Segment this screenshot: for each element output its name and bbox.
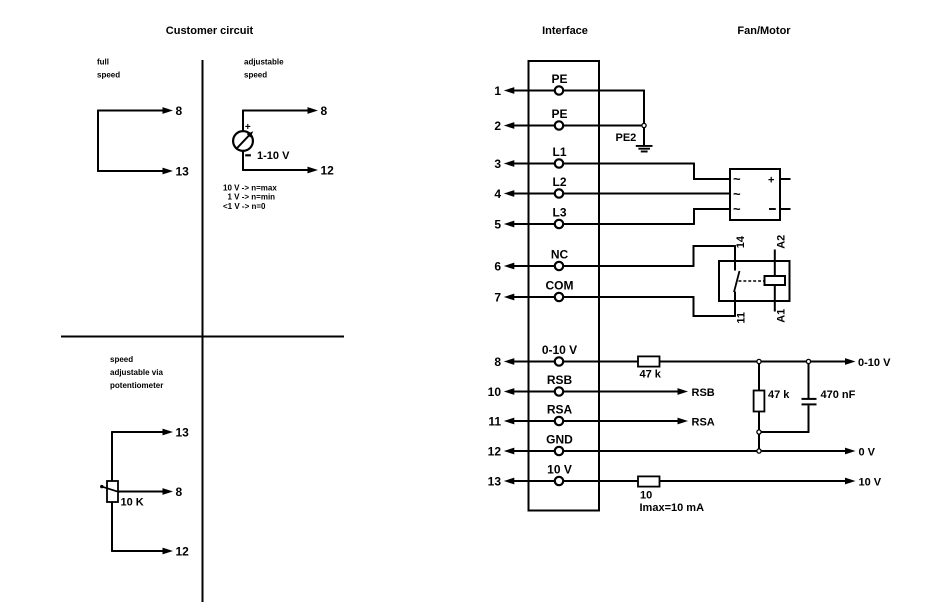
title Interface (542, 25, 588, 37)
wire cap top lead (808, 364, 810, 398)
svg-text:10 V: 10 V (547, 463, 572, 477)
title Customer circuit (166, 25, 254, 37)
potentiometer R 10 K (107, 481, 118, 502)
wire pin2 PE right (564, 125, 642, 127)
pin label L1 (pin 3) (552, 145, 566, 159)
pin label L2 (pin 4) (552, 175, 566, 189)
svg-text:2: 2 (494, 119, 501, 133)
node junction (0V line) (757, 449, 761, 453)
svg-text:7: 7 (494, 291, 501, 305)
pin number 3 (494, 157, 501, 171)
node 12 (adjustable) (321, 164, 335, 178)
svg-text:11: 11 (735, 312, 747, 324)
svg-text:A1: A1 (775, 309, 787, 323)
value 47 k (series) (640, 369, 662, 381)
relay terminal 14 lead (734, 245, 736, 270)
svg-text:0-10 V: 0-10 V (858, 357, 891, 369)
svg-text:8: 8 (321, 104, 328, 118)
wire pot top to 13 (112, 429, 173, 436)
motor pin ~ 3 (733, 202, 741, 217)
wire L2 pin4 to motor (564, 193, 730, 195)
pin number 5 (494, 218, 501, 232)
pin label RSB (pin 10) (547, 373, 573, 387)
wire pin13 to resistor (564, 480, 638, 482)
wire pin 2 to left arrow (504, 122, 555, 129)
svg-text:10 V: 10 V (859, 476, 882, 488)
svg-text:NC: NC (551, 248, 569, 262)
terminal circle pin 12 (GND) (555, 447, 563, 455)
svg-text:13: 13 (176, 165, 190, 179)
wire pin12 to 0V arrow (564, 448, 856, 455)
wire cap bottom to junction (761, 405, 809, 433)
resistor 10 (series) (638, 476, 660, 486)
wire resistor to 0-10V arrow (660, 358, 856, 365)
wire pin 13 to left arrow (504, 478, 555, 485)
wire pot top vertical (111, 431, 113, 481)
motor box (rectifier/fan) (730, 169, 780, 220)
pin label GND (pin 12) (546, 433, 573, 447)
svg-text:12: 12 (176, 545, 190, 559)
relay box K1 (719, 261, 790, 301)
svg-text:14: 14 (735, 235, 747, 248)
wire resistor to 10V arrow (660, 478, 856, 485)
ground symbol (636, 146, 653, 152)
svg-text:47 k: 47 k (768, 389, 790, 401)
net label RSA (692, 416, 715, 428)
svg-text:8: 8 (176, 485, 183, 499)
motor - stub (780, 208, 791, 210)
svg-text:10: 10 (488, 385, 502, 399)
svg-text:12: 12 (321, 164, 335, 178)
wire pot bottom vertical (111, 502, 113, 552)
pin label COM (pin 7) (546, 279, 574, 293)
terminal circle pin 1 (PE) (555, 86, 563, 94)
svg-text:13: 13 (176, 426, 190, 440)
svg-text:470 nF: 470 nF (821, 389, 856, 401)
node 12 (pot) (176, 545, 190, 559)
wire junction to 47k (758, 364, 760, 391)
relay coil A2 lead (774, 250, 776, 277)
wire pin8 to resistor (564, 361, 638, 363)
pin number 7 (494, 291, 501, 305)
wire pin 12 to left arrow (504, 448, 555, 455)
pin number 1 (494, 84, 501, 98)
pin number 6 (494, 260, 501, 274)
svg-text:Fan/Motor: Fan/Motor (737, 25, 791, 37)
relay terminal 11 lead (734, 292, 736, 317)
node 8 (full speed) (176, 104, 183, 118)
motor pin ~ 2 (733, 187, 741, 202)
note Imax=10 mA (640, 502, 705, 514)
label 11 (rotated) (735, 312, 747, 324)
note voltage mapping (223, 183, 277, 211)
svg-text:11: 11 (488, 415, 501, 429)
svg-text:RSA: RSA (692, 416, 715, 428)
terminal circle pin 8 (0-10 V) (555, 357, 563, 365)
resistor 47 k (parallel) (754, 391, 765, 412)
pin number 8 (494, 355, 501, 369)
svg-text:Imax=10 mA: Imax=10 mA (640, 502, 705, 514)
svg-text:~: ~ (733, 187, 741, 202)
node junction (capacitor) (806, 359, 810, 363)
value 10 K (121, 497, 144, 509)
svg-text:speed: speed (97, 71, 120, 80)
interface box (529, 61, 600, 511)
node 8 (pot) (176, 485, 183, 499)
svg-text:10 V -> n=max: 10 V -> n=max (223, 183, 277, 192)
label A1 (rotated) (775, 309, 787, 323)
svg-text:10: 10 (640, 489, 652, 501)
net label 10 V (859, 476, 882, 488)
svg-text:5: 5 (494, 218, 501, 232)
label 14 (rotated) (735, 235, 747, 248)
value 47 k (parallel) (768, 389, 790, 401)
wire source top (242, 110, 244, 132)
resistor 47 k (series) (638, 356, 660, 366)
svg-text:Customer circuit: Customer circuit (166, 25, 254, 37)
wire source+ to 8 (243, 107, 318, 114)
svg-text:0 V: 0 V (859, 446, 876, 458)
node junction (RC bottom) (757, 430, 761, 434)
svg-text:47 k: 47 k (640, 369, 662, 381)
svg-text:potentiometer: potentiometer (110, 381, 163, 390)
svg-text:adjustable: adjustable (244, 58, 284, 67)
terminal circle pin 4 (L2) (555, 189, 563, 197)
wire pin1 PE right (564, 90, 644, 124)
voltage source V1 1-10 V (233, 131, 253, 151)
wire full-speed to 8 (98, 107, 173, 114)
pin number 2 (494, 119, 501, 133)
node 8 (adjustable) (321, 104, 328, 118)
relay actuator dashed link (739, 280, 765, 282)
capacitor 470 nF (802, 399, 817, 405)
terminal circle pin 10 (RSB) (555, 387, 563, 395)
svg-text:~: ~ (733, 202, 741, 217)
pin label L3 (pin 5) (552, 206, 566, 220)
svg-text:PE2: PE2 (616, 132, 637, 144)
terminal circle pin 5 (L3) (555, 220, 563, 228)
relay coil (765, 276, 786, 285)
pin number 12 (488, 445, 502, 459)
svg-text:8: 8 (176, 104, 183, 118)
wire pot wiper to 8 (118, 488, 173, 495)
pin label PE (pin 1) (551, 72, 567, 86)
wire pin 6 to left arrow (504, 263, 555, 270)
terminal circle pin 13 (10 V) (555, 477, 563, 485)
pin label 0-10 V (pin 8) (542, 343, 577, 357)
divider vertical (202, 60, 204, 602)
wire pin 4 to left arrow (504, 190, 555, 197)
svg-text:RSB: RSB (692, 387, 715, 399)
terminal circle pin 3 (L1) (555, 159, 563, 167)
relay coil A1 lead (774, 285, 776, 312)
wire pin 11 to left arrow (504, 418, 555, 425)
svg-text:13: 13 (488, 475, 502, 489)
pin label RSA (pin 11) (547, 403, 573, 417)
svg-text:+: + (768, 174, 774, 186)
wire pot bottom to 12 (112, 548, 173, 555)
wire PE2 to ground (643, 128, 645, 145)
wire pin11 to RSA arrow (564, 418, 688, 425)
svg-text:RSA: RSA (547, 403, 573, 417)
svg-text:L2: L2 (552, 175, 566, 189)
label adjustable speed (244, 58, 284, 80)
wire pin 8 to left arrow (504, 358, 555, 365)
label speed adjustable via potentiometer (110, 355, 163, 390)
svg-text:RSB: RSB (547, 373, 573, 387)
terminal circle pin 7 (COM) (555, 293, 563, 301)
svg-text:L3: L3 (552, 206, 566, 220)
wire source bottom (242, 151, 244, 171)
svg-text:PE: PE (551, 72, 567, 86)
svg-text:PE: PE (551, 107, 567, 121)
motor pin ~ 1 (733, 172, 741, 187)
pin label PE (pin 2) (551, 107, 567, 121)
svg-text:speed: speed (244, 71, 267, 80)
svg-text:speed: speed (110, 355, 133, 364)
wire pin 5 to left arrow (504, 221, 555, 228)
svg-text:Interface: Interface (542, 25, 588, 37)
potentiometer wiper (100, 485, 119, 492)
svg-text:+: + (245, 122, 251, 133)
pin label 10 V (pin 13) (547, 463, 572, 477)
terminal circle pin 6 (NC) (555, 262, 563, 270)
pin number 10 (488, 385, 502, 399)
net label 0-10 V (858, 357, 891, 369)
svg-text:4: 4 (494, 187, 501, 201)
svg-text:COM: COM (546, 279, 574, 293)
svg-text:adjustable via: adjustable via (110, 368, 163, 377)
value 10 (640, 489, 652, 501)
pin number 4 (494, 187, 501, 201)
wire 47k down to 0V (758, 412, 760, 452)
node PE2 junction (642, 123, 646, 127)
terminal circle pin 2 (PE) (555, 121, 563, 129)
svg-text:12: 12 (488, 445, 502, 459)
wire L3 pin5 to motor (564, 208, 730, 225)
label full speed (97, 58, 120, 80)
net label 0 V (859, 446, 876, 458)
wire pin 1 to left arrow (504, 87, 555, 94)
label - (source) (245, 154, 251, 156)
svg-text:L1: L1 (552, 145, 566, 159)
wire full-speed vertical (97, 110, 99, 172)
pin number 13 (488, 475, 502, 489)
wire L1 pin3 to motor (564, 163, 730, 180)
relay switch lever (734, 271, 740, 292)
value 1-10 V (257, 150, 290, 162)
svg-text:10 K: 10 K (121, 497, 144, 509)
label A2 (rotated) (775, 235, 787, 249)
svg-text:A2: A2 (775, 235, 787, 249)
label + (source) (245, 122, 251, 133)
svg-text:6: 6 (494, 260, 501, 274)
svg-text:8: 8 (494, 355, 501, 369)
motor + stub (780, 178, 791, 180)
svg-text:~: ~ (733, 172, 741, 187)
svg-text:3: 3 (494, 157, 501, 171)
title Fan/Motor (737, 25, 791, 37)
pin label NC (pin 6) (551, 248, 569, 262)
svg-text:full: full (97, 58, 109, 67)
wire COM pin7 to relay 11 (564, 296, 735, 317)
svg-text:1-10 V: 1-10 V (257, 150, 290, 162)
svg-text:1 V -> n=min: 1 V -> n=min (228, 193, 276, 202)
svg-text:0-10 V: 0-10 V (542, 343, 577, 357)
node junction (parallel R) (757, 359, 761, 363)
pin number 11 (488, 415, 501, 429)
wire pin 10 to left arrow (504, 388, 555, 395)
node 13 (full speed) (176, 165, 190, 179)
net label RSB (692, 387, 715, 399)
wire pin 7 to left arrow (504, 294, 555, 301)
motor pin - (769, 208, 776, 210)
wire full-speed to 13 (98, 168, 173, 175)
svg-text:GND: GND (546, 433, 573, 447)
wire pin 3 to left arrow (504, 160, 555, 167)
svg-text:1: 1 (494, 84, 501, 98)
wire NC pin6 to relay 14 (564, 245, 735, 267)
node 13 (pot) (176, 426, 190, 440)
svg-text:<1 V -> n=0: <1 V -> n=0 (223, 202, 266, 211)
value 470 nF (821, 389, 856, 401)
divider horizontal (61, 336, 344, 338)
label PE2 (616, 132, 637, 144)
terminal circle pin 11 (RSA) (555, 417, 563, 425)
wire source- to 12 (243, 167, 318, 174)
motor pin + (768, 174, 774, 186)
wire pin10 to RSB arrow (564, 388, 688, 395)
